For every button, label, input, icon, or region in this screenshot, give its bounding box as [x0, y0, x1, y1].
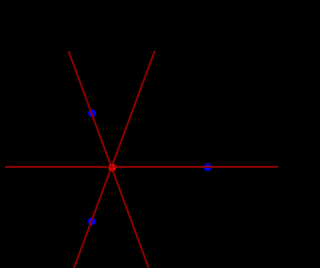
faint line overlap shading across point A	[69, 51, 278, 268]
point D (blue, on lower part of line g)	[88, 217, 96, 225]
line f (diagonal, top-left to bottom-right)	[69, 51, 149, 268]
point A (red, center intersection, drawn above lines)	[108, 164, 116, 172]
line h right segment (horizontal)	[112, 166, 278, 168]
point C (blue, on horizontal line h, right side)	[204, 164, 212, 172]
line g (diagonal, top-right to bottom-left)	[74, 51, 155, 268]
point B (blue, on upper part of line f)	[88, 109, 96, 117]
line h left segment (horizontal, stops short of point A)	[5, 166, 107, 168]
